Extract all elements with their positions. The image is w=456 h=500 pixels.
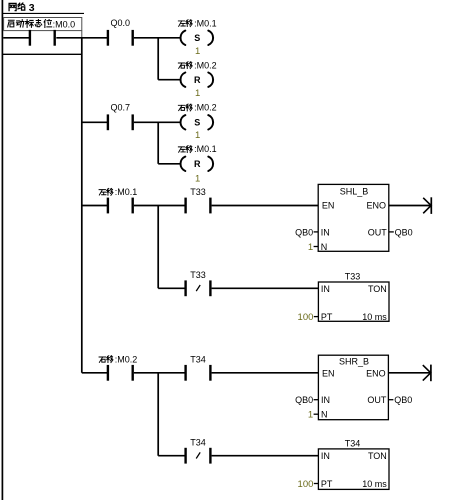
svg-text:T33: T33 [345, 271, 361, 281]
label 左移:M0.1 (contact rung3) [99, 190, 106, 195]
contact T33 [184, 198, 186, 214]
wire Q0.0 to S coil [134, 37, 180, 39]
svg-text:IN: IN [321, 227, 330, 237]
coil S 右移:M0.2 [180, 115, 185, 129]
pin stub 1-N rung5 [314, 413, 319, 415]
svg-text:T34: T34 [190, 354, 206, 364]
box SHL_B [318, 184, 389, 251]
svg-text:OUT: OUT [368, 227, 388, 237]
svg-text:IN: IN [321, 284, 330, 294]
svg-text:1: 1 [308, 242, 313, 253]
svg-text:SHL_B: SHL_B [340, 186, 369, 196]
svg-text:Q0.7: Q0.7 [111, 103, 131, 113]
wire rail to contact M0.0 [3, 37, 30, 39]
svg-text:QB0: QB0 [295, 395, 313, 405]
wire branch to R coil rung2 [158, 163, 180, 165]
contact 右移:M0.2 [107, 365, 109, 381]
junction vertical to T33 timer rung [157, 206, 159, 289]
svg-text:PT: PT [321, 312, 333, 322]
svg-text:1: 1 [195, 88, 200, 99]
pin stub OUT-QB0 rung5 [388, 399, 393, 401]
coil R 右移:M0.2 [180, 73, 185, 87]
label 右移:M0.2 (R coil) [178, 63, 185, 68]
svg-text:100: 100 [298, 479, 314, 490]
svg-text:S: S [194, 118, 200, 128]
wire T33 contact to SHL_B EN [212, 205, 319, 207]
svg-text:T33: T33 [190, 270, 206, 280]
box timer T33 TON [318, 282, 389, 321]
svg-text::M0.2: :M0.2 [194, 60, 217, 70]
pin stub 100-PT rung6 [314, 483, 319, 485]
svg-text:R: R [194, 159, 201, 169]
svg-text:EN: EN [322, 200, 335, 210]
wire T33 NC to timer box [212, 287, 319, 289]
svg-text:T34: T34 [190, 438, 206, 448]
contact Q0.7 [107, 114, 109, 130]
svg-text::M0.1: :M0.1 [194, 18, 217, 28]
pin stub QB0-IN rung5 [314, 399, 319, 401]
wire ENO to arrow rung5 [388, 372, 429, 374]
svg-text:1: 1 [195, 46, 200, 57]
wire T34 NC to timer box [212, 455, 319, 457]
svg-text:IN: IN [321, 395, 330, 405]
svg-text::M0.0: :M0.0 [53, 19, 76, 29]
svg-text:N: N [321, 410, 328, 420]
svg-text:ENO: ENO [366, 200, 386, 210]
svg-text::M0.1: :M0.1 [115, 187, 138, 197]
svg-text::M0.1: :M0.1 [194, 144, 217, 154]
wire branch to R coil rung1 [158, 79, 180, 81]
parallel bottom wire under M0.0 contact [2, 53, 82, 55]
box timer T34 TON [318, 449, 389, 490]
svg-text:IN: IN [321, 451, 330, 461]
contact T34 [184, 365, 186, 381]
junction vertical to T34 timer rung [157, 373, 159, 456]
svg-text:EN: EN [322, 368, 335, 378]
svg-text:QB0: QB0 [295, 227, 313, 237]
wire T34 contact to SHR_B EN [212, 372, 319, 374]
svg-text:T34: T34 [345, 438, 361, 448]
network title separator line [2, 12, 84, 14]
svg-text:1: 1 [308, 410, 313, 421]
open arrow to right rail rung5 [423, 365, 431, 381]
svg-text:PT: PT [321, 479, 333, 489]
contact Q0.0 [107, 30, 109, 46]
svg-text:R: R [194, 75, 201, 85]
wire to T33 contact rung3 [134, 205, 186, 207]
wire main branch to contact 右移:M0.2 [82, 372, 108, 374]
contact T33 normally closed [184, 280, 186, 296]
network title 网络 3 [9, 2, 35, 14]
wire main branch to contact 左移:M0.1 [82, 205, 108, 207]
pin stub OUT-QB0 [389, 231, 394, 233]
label 右移:M0.2 (S coil rung2) [178, 105, 185, 110]
coil S 左移:M0.1 [180, 31, 185, 45]
svg-text:S: S [194, 33, 200, 43]
svg-text::M0.2: :M0.2 [194, 103, 217, 113]
wire main branch to Q0.7 [82, 121, 108, 123]
wire ENO to arrow [389, 205, 430, 207]
svg-text:Q0.0: Q0.0 [111, 18, 131, 28]
svg-text:QB0: QB0 [394, 395, 412, 405]
symbol label box 启动标志位:M0.0 [4, 18, 82, 31]
label 左移:M0.1 (S coil) [178, 21, 185, 26]
main branch vertical wire x=82 [81, 38, 83, 373]
svg-text:10 ms: 10 ms [362, 312, 387, 322]
left power rail [1, 0, 3, 500]
wire junction to T34 NC contact [158, 455, 185, 457]
contact 左移:M0.1 [107, 198, 109, 214]
svg-text:ENO: ENO [366, 368, 386, 378]
contact T34 normally closed [184, 448, 186, 464]
svg-text:1: 1 [195, 130, 200, 141]
wire contact M0.0 to Q0.0 [56, 37, 107, 39]
svg-text:TON: TON [368, 451, 387, 461]
label 右移:M0.2 (contact rung5) [99, 357, 106, 362]
svg-text:QB0: QB0 [395, 227, 413, 237]
pin stub 1-N [314, 246, 319, 248]
label 左移:M0.1 (R coil rung2) [178, 147, 185, 152]
coil branch vertical rung1 [157, 38, 159, 80]
svg-text:TON: TON [368, 284, 387, 294]
svg-text::M0.2: :M0.2 [115, 354, 138, 364]
coil branch vertical rung2 [157, 122, 159, 164]
svg-text:T33: T33 [190, 187, 206, 197]
svg-text:N: N [321, 242, 328, 252]
svg-text:1: 1 [195, 174, 200, 185]
coil R 左移:M0.1 [181, 157, 186, 171]
label box right edge stub [81, 31, 83, 38]
svg-text:3: 3 [29, 2, 35, 14]
box SHR_B [318, 355, 388, 420]
wire junction to T33 NC contact [158, 287, 185, 289]
wire to T34 contact rung5 [134, 372, 186, 374]
svg-text:10 ms: 10 ms [362, 479, 387, 489]
svg-text:100: 100 [298, 312, 314, 323]
pin stub 100-PT [314, 316, 319, 318]
open arrow to right rail rung3 [423, 198, 431, 214]
pin stub QB0-IN [314, 231, 319, 233]
wire Q0.7 to S coil rung2 [134, 121, 180, 123]
contact 启动标志位:M0.0 [29, 30, 31, 46]
svg-text:OUT: OUT [367, 395, 387, 405]
svg-text:SHR_B: SHR_B [339, 356, 369, 366]
